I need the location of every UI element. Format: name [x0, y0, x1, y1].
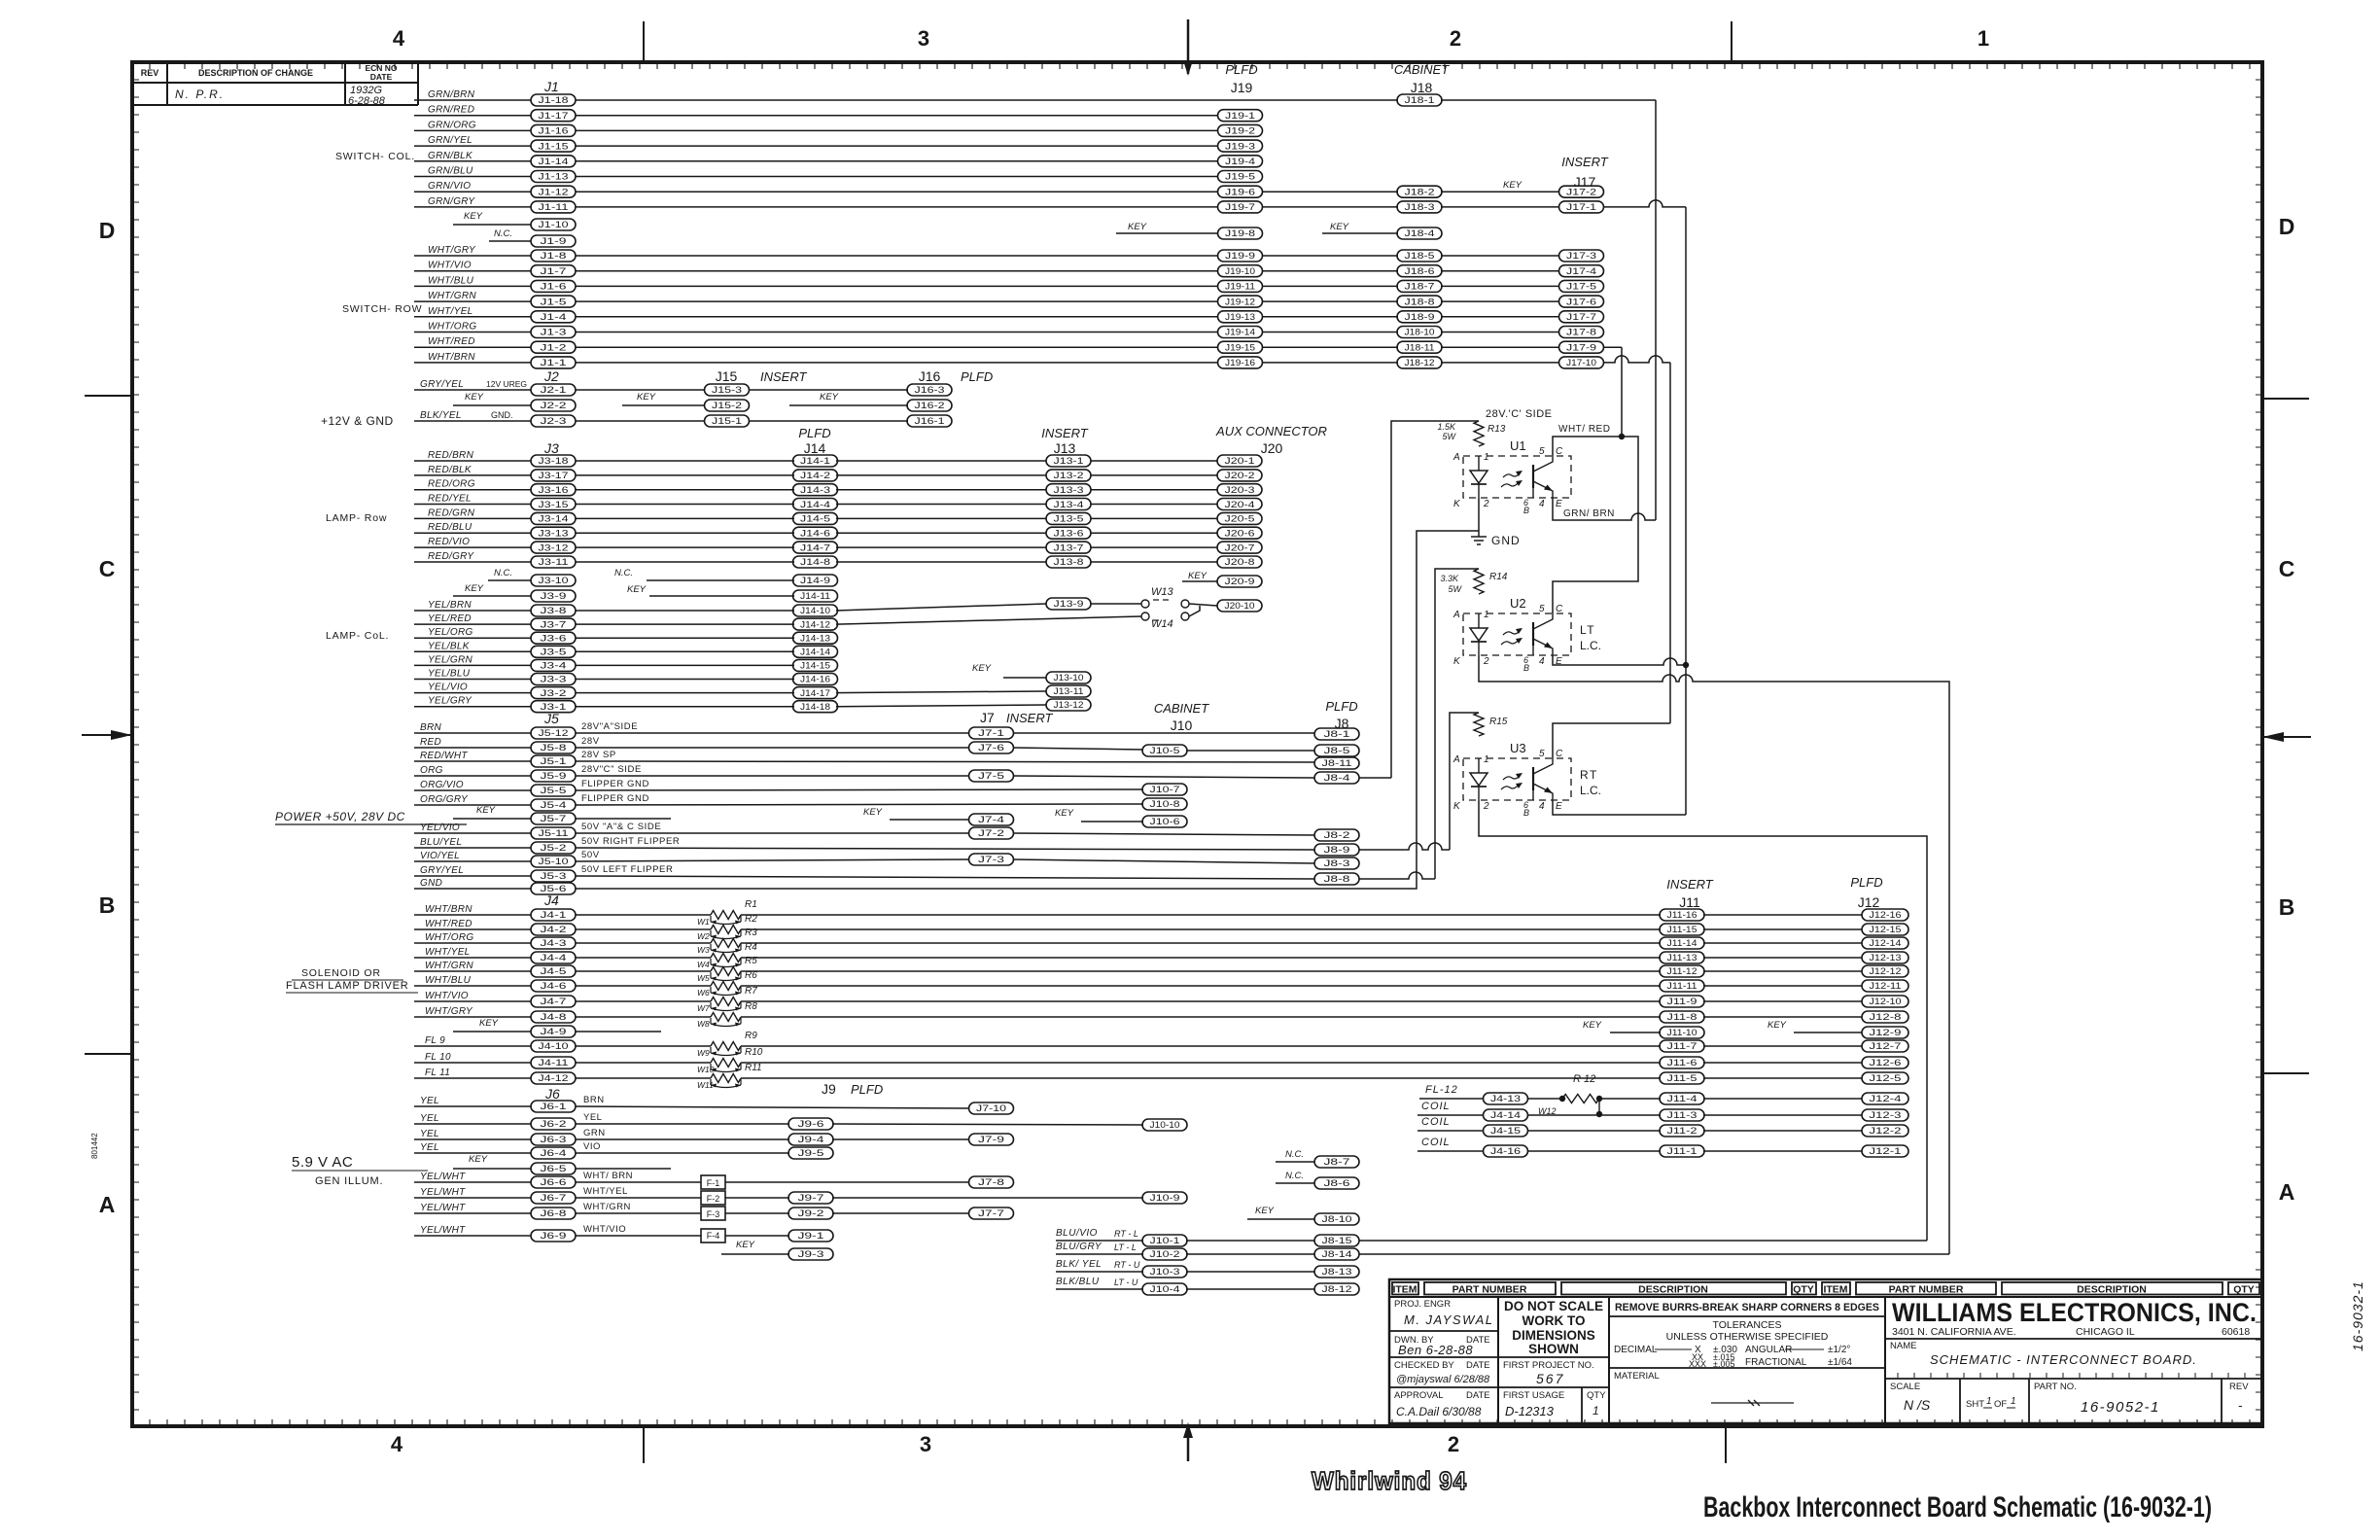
svg-text:J11-13: J11-13 — [1667, 953, 1697, 962]
connector pin J19-15 — [1218, 341, 1263, 353]
svg-text:N /S: N /S — [1904, 1397, 1931, 1413]
connector pin J4-13 — [1484, 1093, 1528, 1104]
wire J1-2 stub — [414, 346, 531, 348]
connector pin J3-18 — [531, 455, 576, 467]
svg-text:INSERT: INSERT — [1006, 711, 1053, 725]
connector pin J1-4 — [531, 311, 576, 323]
svg-text:YEL/WHT: YEL/WHT — [420, 1172, 466, 1182]
wire J4-5 stub — [414, 970, 531, 972]
connector pin J8-13 — [1314, 1266, 1359, 1277]
svg-text:J12-16: J12-16 — [1870, 910, 1902, 920]
wire W13/W14 to J20-10 — [1189, 604, 1217, 616]
connector pin J10-6 — [1142, 816, 1187, 827]
svg-text:±.005: ±.005 — [1713, 1359, 1734, 1369]
wire J1-5 stub — [414, 300, 531, 302]
svg-text:J11-4: J11-4 — [1667, 1094, 1697, 1103]
connector pin J16-3 — [907, 384, 952, 396]
wire J14-4 to J13-4 — [836, 504, 1046, 506]
wire J19-14 to J18-10 — [1262, 332, 1398, 333]
connector pin J1-2 — [531, 341, 576, 353]
svg-text:GRN/RED: GRN/RED — [428, 105, 474, 116]
svg-text:R1: R1 — [745, 899, 757, 910]
wire J5-12 to J7-1 — [576, 732, 969, 734]
svg-text:J8-11: J8-11 — [1322, 758, 1352, 768]
connector pin J10-7 — [1142, 784, 1187, 795]
connector pin J14-7 — [793, 542, 838, 553]
connector pin J1-13 — [531, 171, 576, 183]
wire J4-12 to R11 — [576, 1077, 711, 1079]
connector pin J9-1 — [788, 1230, 833, 1242]
svg-text:R4: R4 — [745, 942, 757, 953]
group label POWER +50V 28V DC — [275, 810, 467, 824]
wire J4-4 stub — [414, 957, 531, 959]
svg-text:KEY: KEY — [627, 584, 647, 595]
wire J14-17 to J13-11 — [836, 691, 1046, 693]
svg-text:3401 N. CALIFORNIA AVE.: 3401 N. CALIFORNIA AVE. — [1892, 1326, 2016, 1338]
net label FL-12 — [1419, 1084, 1483, 1099]
connector pin J19-7 — [1218, 201, 1263, 213]
wire J3-1 to J14-18 — [576, 706, 794, 708]
svg-text:J19-2: J19-2 — [1225, 126, 1255, 136]
connector pin J13-7 — [1046, 542, 1091, 553]
svg-text:5W: 5W — [1443, 432, 1457, 441]
svg-text:J1-11: J1-11 — [539, 202, 569, 212]
connector pin J7-9 — [969, 1134, 1014, 1145]
wire J17-1 to right bus — [1604, 200, 1686, 207]
svg-text:J10-1: J10-1 — [1150, 1236, 1180, 1245]
svg-text:DATE: DATE — [370, 72, 393, 82]
connector pin J7-5 — [969, 770, 1014, 782]
wire J8-14 to U2 return bus — [1359, 1253, 1949, 1255]
wire J4-13 to R12 — [1528, 1098, 1562, 1100]
svg-text:J2: J2 — [543, 368, 559, 384]
wire J3-8 stub — [414, 610, 531, 612]
wire J3-3 stub — [414, 679, 531, 681]
svg-text:5W: 5W — [1449, 584, 1463, 594]
svg-text:J11-9: J11-9 — [1667, 997, 1697, 1006]
svg-text:1.5K: 1.5K — [1437, 422, 1456, 432]
wire J6-9 to F-4 — [576, 1235, 701, 1237]
wire J19-11 to J18-7 — [1262, 285, 1398, 287]
connector pin J9-2 — [788, 1207, 833, 1219]
svg-text:J12-6: J12-6 — [1870, 1058, 1902, 1067]
wire J5-6 GND line — [576, 888, 1411, 890]
svg-text:E: E — [1556, 499, 1562, 509]
connector pin J3-6 — [531, 632, 576, 644]
svg-text:J4-11: J4-11 — [539, 1058, 569, 1067]
wire J5-8 stub — [414, 747, 531, 749]
connector pin J3-11 — [531, 556, 576, 568]
connector pin J8-8 — [1314, 873, 1359, 885]
svg-text:U2: U2 — [1510, 596, 1526, 611]
svg-text:J19-3: J19-3 — [1225, 141, 1255, 151]
svg-text:ITEM: ITEM — [1823, 1284, 1847, 1296]
connector pin J1-15 — [531, 140, 576, 152]
svg-text:WORK TO: WORK TO — [1522, 1313, 1586, 1328]
wire J18-10 to J17-8 — [1441, 332, 1558, 333]
svg-text:F-3: F-3 — [707, 1209, 720, 1219]
svg-text:R11: R11 — [745, 1063, 762, 1073]
connector pin J8-14 — [1314, 1248, 1359, 1260]
wire J14-1 to J13-1 — [836, 460, 1046, 462]
svg-text:DECIMAL: DECIMAL — [1614, 1345, 1658, 1355]
svg-text:CABINET: CABINET — [1154, 701, 1209, 716]
svg-text:1: 1 — [1484, 610, 1489, 620]
svg-text:QTY: QTY — [1587, 1390, 1606, 1401]
wire NC stub J8-7 — [1276, 1161, 1314, 1163]
wire J3-6 to J14-13 — [576, 637, 794, 639]
wire J6-1 to J7-10 — [576, 1106, 969, 1108]
wire J1-17 to J19-1 — [576, 115, 1218, 117]
wire J1-1 stub — [414, 362, 531, 364]
connector pin J15-2 — [705, 400, 750, 411]
wire J3-14 to J14-5 — [576, 517, 794, 519]
wire J4-12 stub — [414, 1077, 531, 1079]
svg-text:50V "A"& C SIDE: 50V "A"& C SIDE — [581, 822, 661, 832]
wire J3-4 stub — [414, 664, 531, 666]
wire J4-10 to R9 — [576, 1045, 711, 1047]
wire J19-9 to J18-5 — [1262, 255, 1398, 257]
wire J1-8 stub — [414, 255, 531, 257]
svg-text:J3-12: J3-12 — [539, 542, 569, 552]
svg-text:J7-10: J7-10 — [976, 1103, 1006, 1113]
wire KEY stub J8-10 — [1247, 1218, 1314, 1220]
svg-text:J4-13: J4-13 — [1490, 1094, 1521, 1103]
connector pin J15-1 — [705, 415, 750, 427]
jumper W5 — [697, 972, 741, 983]
svg-text:BLK/ YEL: BLK/ YEL — [1056, 1259, 1102, 1270]
wire J1-18 to J18-1 — [576, 99, 1398, 101]
resistor R2 — [711, 926, 741, 934]
connector pin J1-6 — [531, 280, 576, 292]
svg-text:J8-4: J8-4 — [1324, 773, 1350, 783]
svg-text:J20-4: J20-4 — [1225, 500, 1255, 509]
svg-text:J11-16: J11-16 — [1667, 910, 1697, 920]
connector pin J14-1 — [793, 455, 838, 467]
svg-text:WHT/GRY: WHT/GRY — [428, 245, 476, 256]
wire J18-2 to J17-2 — [1441, 191, 1558, 192]
svg-text:28V: 28V — [581, 736, 600, 747]
svg-text:J5-5: J5-5 — [541, 786, 567, 795]
connector pin J12-2 — [1862, 1125, 1908, 1137]
connector pin J4-14 — [1484, 1109, 1528, 1121]
wire R2 to J11-15 — [741, 928, 1661, 930]
wire J6-2 to J9-6 — [576, 1123, 789, 1125]
wire J11-16 to J12-16 — [1703, 914, 1862, 916]
svg-text:FL-12: FL-12 — [1425, 1084, 1458, 1096]
svg-text:J12-10: J12-10 — [1870, 997, 1902, 1006]
svg-text:J12-1: J12-1 — [1870, 1146, 1902, 1156]
svg-text:J8-12: J8-12 — [1322, 1284, 1352, 1294]
svg-text:J5-2: J5-2 — [541, 843, 567, 853]
jumper W10 — [697, 1064, 741, 1074]
svg-text:RT: RT — [1580, 768, 1598, 782]
svg-text:J14-2: J14-2 — [800, 471, 830, 480]
wire J1-15 to J19-3 — [576, 145, 1218, 147]
svg-text:J7-9: J7-9 — [978, 1135, 1004, 1144]
svg-text:W5: W5 — [697, 973, 710, 983]
svg-text:KEY: KEY — [469, 1154, 488, 1165]
connector pin J11-12 — [1660, 965, 1704, 977]
wire J1-13 stub — [414, 176, 531, 178]
svg-text:RED/BLK: RED/BLK — [428, 465, 472, 475]
wire J3-12 to J14-7 — [576, 546, 794, 548]
connector pin J19-2 — [1218, 124, 1263, 136]
wire J3-17 to J14-2 — [576, 474, 794, 476]
svg-text:J6-7: J6-7 — [541, 1193, 567, 1203]
svg-text:5: 5 — [1539, 446, 1545, 457]
wire J8-15 to U3 return bus — [1359, 1240, 1927, 1242]
svg-text:W2: W2 — [697, 931, 710, 941]
connector pin J5-11 — [531, 827, 576, 839]
connector pin J12-4 — [1862, 1093, 1908, 1104]
wire J10-5 to J8-5 — [1186, 750, 1314, 752]
svg-text:J8-13: J8-13 — [1322, 1267, 1352, 1277]
svg-text:J8-5: J8-5 — [1324, 746, 1350, 755]
opto-coupler U1 — [1452, 438, 1571, 515]
svg-text:J11-6: J11-6 — [1667, 1058, 1697, 1067]
svg-text:J5-4: J5-4 — [541, 800, 567, 810]
wire J3-11 stub — [414, 561, 531, 563]
svg-text:BLK/YEL: BLK/YEL — [420, 410, 462, 421]
connector pin J19-11 — [1218, 280, 1263, 292]
svg-text:J7-6: J7-6 — [978, 743, 1004, 752]
svg-text:FRACTIONAL: FRACTIONAL — [1745, 1357, 1807, 1368]
svg-text:J5-11: J5-11 — [539, 828, 569, 838]
svg-text:±1/2°: ±1/2° — [1828, 1345, 1850, 1355]
wire J3-13 stub — [414, 532, 531, 534]
wire J3-18 to J14-1 — [576, 460, 794, 462]
connector pin J10-5 — [1142, 745, 1187, 756]
wire J3-4 to J14-15 — [576, 664, 794, 666]
wire J3-15 to J14-4 — [576, 504, 794, 506]
connector pin J18-5 — [1397, 250, 1442, 262]
svg-text:J5: J5 — [543, 711, 559, 726]
wire J6-3 to J9-4 — [576, 1138, 789, 1140]
svg-text:J1-18: J1-18 — [539, 95, 569, 105]
wire KEY stub J12-9 — [1794, 1032, 1862, 1033]
wire J18-7 to J17-5 — [1441, 285, 1558, 287]
wire R4 to J11-13 — [741, 957, 1661, 959]
wire J3-14 stub — [414, 517, 531, 519]
wire BLU/VIO stub — [1056, 1240, 1143, 1242]
svg-text:J13-4: J13-4 — [1054, 500, 1084, 509]
svg-text:W1: W1 — [697, 917, 710, 927]
svg-text:J3-15: J3-15 — [539, 500, 569, 509]
svg-text:J12-4: J12-4 — [1870, 1094, 1902, 1103]
svg-text:INSERT: INSERT — [1041, 426, 1088, 440]
connector pin J6-4 — [531, 1147, 576, 1159]
svg-text:J9-1: J9-1 — [798, 1231, 824, 1241]
connector pin J6-9 — [531, 1230, 576, 1242]
connector pin J8-5 — [1314, 745, 1359, 756]
svg-text:J16-2: J16-2 — [915, 401, 945, 410]
connector pin J3-1 — [531, 701, 576, 713]
connector pin J17-8 — [1559, 327, 1604, 338]
svg-text:J20: J20 — [1261, 440, 1283, 456]
svg-text:J4-6: J4-6 — [541, 981, 567, 991]
wire J3-1 stub — [414, 706, 531, 708]
svg-text:DO NOT SCALE: DO NOT SCALE — [1504, 1299, 1603, 1313]
svg-text:J18-6: J18-6 — [1405, 266, 1435, 276]
svg-text:J11: J11 — [1679, 894, 1700, 910]
svg-text:B: B — [1523, 808, 1529, 818]
connector pin J18-9 — [1397, 311, 1442, 323]
svg-text:WHT/RED: WHT/RED — [425, 919, 472, 929]
svg-text:LT: LT — [1580, 623, 1595, 637]
wire R1 to J11-16 — [741, 914, 1661, 916]
svg-text:J1-1: J1-1 — [541, 358, 567, 367]
svg-text:J16-1: J16-1 — [915, 416, 945, 426]
group label FLASH LAMP DRIVER — [286, 980, 418, 993]
wire J1-8 to J19-9 — [576, 255, 1218, 257]
svg-text:R7: R7 — [745, 986, 757, 997]
svg-text:J17-2: J17-2 — [1566, 187, 1596, 196]
connector pin J13-11 — [1046, 685, 1091, 697]
connector pin J17-7 — [1559, 311, 1604, 323]
connector pin J9-4 — [788, 1134, 833, 1145]
svg-text:BLU/YEL: BLU/YEL — [420, 837, 462, 848]
svg-text:WHT/RED: WHT/RED — [428, 336, 475, 347]
svg-text:J18: J18 — [1411, 80, 1433, 95]
svg-text:J10-10: J10-10 — [1150, 1120, 1180, 1130]
wire J13-2 to J20-2 — [1091, 474, 1217, 476]
svg-text:J20-10: J20-10 — [1225, 601, 1255, 611]
connector pin J12-8 — [1862, 1011, 1908, 1023]
connector pin J18-1 — [1397, 94, 1442, 106]
wire J1-3 stub — [414, 332, 531, 333]
wire J18-9 to J17-7 — [1441, 316, 1558, 318]
svg-text:WHT/VIO: WHT/VIO — [583, 1224, 626, 1235]
svg-text:YEL/RED: YEL/RED — [428, 613, 472, 624]
connector pin J6-6 — [531, 1176, 576, 1188]
svg-text:J9-2: J9-2 — [798, 1208, 824, 1218]
svg-text:L.C.: L.C. — [1580, 639, 1601, 652]
svg-text:J13-2: J13-2 — [1054, 471, 1084, 480]
svg-text:N.C.: N.C. — [494, 568, 512, 578]
svg-text:J14-10: J14-10 — [800, 606, 830, 615]
connector pin J6-3 — [531, 1134, 576, 1145]
svg-text:4: 4 — [1539, 656, 1545, 667]
svg-text:DESCRIPTION: DESCRIPTION — [1638, 1284, 1708, 1296]
svg-text:A: A — [1452, 754, 1460, 765]
svg-text:2: 2 — [1448, 1432, 1459, 1456]
connector pin J6-2 — [531, 1118, 576, 1130]
svg-text:J10-7: J10-7 — [1150, 785, 1180, 794]
resistor R6 — [711, 982, 741, 991]
svg-text:J19-14: J19-14 — [1225, 328, 1255, 337]
connector pin J8-1 — [1314, 728, 1359, 740]
opto-coupler U2 — [1452, 596, 1571, 673]
connector pin J14-4 — [793, 499, 838, 510]
svg-text:J12-12: J12-12 — [1870, 966, 1902, 976]
svg-text:60618: 60618 — [2222, 1326, 2250, 1338]
wire J3-3 to J14-16 — [576, 679, 794, 681]
wire J1-17 stub — [414, 115, 531, 117]
svg-text:J6: J6 — [544, 1086, 560, 1102]
svg-text:16-9052-1: 16-9052-1 — [2081, 1399, 2160, 1416]
connector pin J4-15 — [1484, 1125, 1528, 1137]
wire J11-13 to J12-13 — [1703, 957, 1862, 959]
svg-text:GND.: GND. — [491, 410, 513, 420]
svg-text:J17-6: J17-6 — [1566, 297, 1596, 306]
connector pin J19-3 — [1218, 140, 1263, 152]
connector pin J19-10 — [1218, 265, 1263, 277]
wire J4-4 to R4 — [576, 957, 711, 959]
connector pin J18-10 — [1397, 327, 1442, 338]
svg-text:J7-3: J7-3 — [978, 855, 1004, 864]
wire U3 cathode to J8-15 bus — [1479, 800, 1927, 1241]
wire J3-15 stub — [414, 504, 531, 506]
svg-text:J4-12: J4-12 — [539, 1073, 569, 1083]
jumper W9 — [697, 1047, 741, 1058]
svg-text:J16-3: J16-3 — [915, 385, 945, 395]
wire J11-12 to J12-12 — [1703, 970, 1862, 972]
wire J14-6 to J13-6 — [836, 532, 1046, 534]
svg-text:J17-10: J17-10 — [1566, 358, 1596, 367]
svg-text:J9-5: J9-5 — [798, 1148, 824, 1158]
svg-text:W3: W3 — [697, 945, 710, 955]
connector pin J10-3 — [1142, 1266, 1187, 1277]
connector pin J2-2 — [531, 400, 576, 411]
svg-text:±1/64: ±1/64 — [1828, 1357, 1852, 1368]
wire J8-8 to R14 riser — [1359, 872, 1435, 879]
svg-text:J20-3: J20-3 — [1225, 485, 1255, 495]
svg-text:REV: REV — [141, 68, 159, 78]
svg-text:R14: R14 — [1489, 572, 1508, 582]
wire J5-10 to J7-3 — [576, 859, 969, 861]
connector pin J1-9 — [531, 235, 576, 247]
svg-text:LAMP- CoL.: LAMP- CoL. — [326, 630, 389, 642]
connector pin J18-8 — [1397, 296, 1442, 307]
wire J13-4 to J20-4 — [1091, 504, 1217, 506]
svg-text:4: 4 — [1539, 499, 1545, 509]
connector pin J18-11 — [1397, 341, 1442, 353]
wire R8 to J11-8 — [741, 1016, 1661, 1018]
svg-text:J13-6: J13-6 — [1054, 529, 1084, 539]
wire KEY stub J15-2 — [622, 404, 705, 406]
wire J3-2 stub — [414, 692, 531, 694]
wire J13-9 to W13 — [1091, 603, 1141, 605]
resistor R8 — [711, 1013, 741, 1022]
svg-text:BLK/BLU: BLK/BLU — [1056, 1277, 1100, 1287]
connector pin J11-4 — [1660, 1093, 1704, 1104]
connector pin J4-3 — [531, 937, 576, 949]
svg-text:J11-14: J11-14 — [1667, 938, 1697, 948]
svg-text:J3-3: J3-3 — [541, 675, 567, 684]
wire R11 to J11-5 — [741, 1077, 1661, 1079]
svg-text:VIO/YEL: VIO/YEL — [420, 851, 460, 861]
svg-text:J14-6: J14-6 — [800, 529, 830, 539]
connector pin J20-9 — [1217, 576, 1262, 587]
svg-text:PART NUMBER: PART NUMBER — [1889, 1284, 1964, 1296]
svg-text:J4-2: J4-2 — [541, 925, 567, 934]
svg-text:J18-2: J18-2 — [1405, 187, 1435, 196]
connector pin J16-1 — [907, 415, 952, 427]
svg-text:U3: U3 — [1510, 741, 1526, 755]
wire J8-9 to R15 riser — [1359, 843, 1450, 850]
wire 28V C-side riser to R13 — [1391, 421, 1479, 778]
svg-text:1: 1 — [1484, 754, 1489, 765]
svg-text:J15: J15 — [716, 368, 738, 384]
wire J11-6 to J12-6 — [1703, 1062, 1862, 1064]
wire J19-12 to J18-8 — [1262, 300, 1398, 302]
wire F-4 to J9-1 — [725, 1235, 789, 1237]
svg-text:J17-8: J17-8 — [1566, 328, 1596, 337]
svg-text:J15-1: J15-1 — [712, 416, 742, 426]
wire U1 collector (WHT/RED) — [1553, 437, 1638, 613]
revision table — [132, 62, 418, 107]
